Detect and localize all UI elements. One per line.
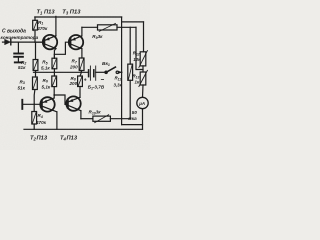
junction mid rail R5 <box>54 71 56 73</box>
wire R11 bottom to R10 <box>129 80 131 118</box>
resistor R8 <box>78 76 83 97</box>
transistor T2 <box>40 95 57 129</box>
label battery minus <box>101 79 103 81</box>
junction R6-T2 node <box>53 94 55 96</box>
wire R12 feed <box>143 22 145 52</box>
resistor R1 <box>33 17 38 42</box>
junction R10-R11 <box>129 118 131 120</box>
resistor R2 <box>33 60 38 78</box>
resistor R7 <box>79 58 84 76</box>
transistor T1 <box>35 16 57 58</box>
junction mid rail left <box>35 71 37 73</box>
wire T2 collector to T4 base <box>54 95 68 104</box>
resistor R4 <box>32 104 37 129</box>
resistor R9 variable <box>82 23 136 31</box>
meter uA <box>137 97 148 129</box>
diode D1 <box>5 39 11 44</box>
junction T2 base node <box>33 104 35 106</box>
capacitor C1 <box>14 54 23 57</box>
wire diode to base node <box>11 41 44 43</box>
junction base node <box>35 41 37 43</box>
wire meter return <box>122 124 143 126</box>
paper texture overlay <box>0 0 150 150</box>
transistor T4 <box>66 96 81 118</box>
resistor R5 <box>52 54 57 76</box>
battery B1 <box>89 66 105 80</box>
wire R9 to R12-R13 node <box>136 27 143 69</box>
wire rail jog upper right <box>122 21 144 23</box>
ground bar <box>15 61 22 63</box>
bottom rail <box>24 128 143 130</box>
wire cap to ground <box>17 58 19 62</box>
wire T2 base <box>23 103 41 105</box>
wire right bus down <box>121 17 123 125</box>
transistor T3 <box>69 27 83 58</box>
wire base column <box>35 42 37 59</box>
mid rail <box>34 71 89 73</box>
switch Vk1 <box>105 67 122 74</box>
junction switch-bus <box>121 71 123 73</box>
wire input <box>3 41 6 43</box>
resistor R13 variable <box>139 70 148 97</box>
junction mid rail R7 <box>80 71 82 73</box>
wire T1 collector to T3 base <box>54 42 70 54</box>
resistor R10 variable <box>81 115 130 123</box>
input terminal bar <box>21 100 23 109</box>
resistor R11 <box>128 27 133 80</box>
resistor R3 <box>33 77 38 104</box>
wire cap drop <box>17 42 19 52</box>
resistor R6 <box>52 76 57 95</box>
resistor R12 variable <box>139 51 148 72</box>
top rail <box>35 16 122 18</box>
